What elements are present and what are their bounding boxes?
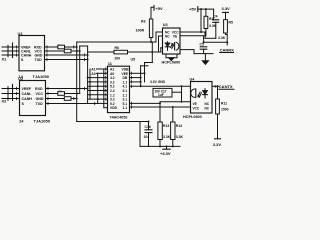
svg-text:VREF: VREF xyxy=(22,87,32,91)
capacitor C5 xyxy=(200,43,207,54)
svg-text:CANL: CANL xyxy=(22,92,33,96)
svg-text:TXD: TXD xyxy=(36,102,44,106)
wire vertical bus B xyxy=(79,46,81,94)
svg-text:+5V: +5V xyxy=(189,7,197,12)
svg-text:NC: NC xyxy=(165,35,170,39)
capacitor C17 xyxy=(153,88,172,97)
wire vertical join to lines xyxy=(151,42,153,63)
svg-text:GND: GND xyxy=(36,97,44,101)
svg-text:CANH: CANH xyxy=(21,54,32,58)
svg-text:TJA1050: TJA1050 xyxy=(34,119,51,124)
wire U5 row8 stub right xyxy=(130,102,161,104)
connector X2 xyxy=(2,85,20,104)
wire vertical riser H xyxy=(144,63,146,82)
node CANTX label xyxy=(212,84,234,89)
power 3.3V bottom right xyxy=(213,139,222,147)
svg-text:A1: A1 xyxy=(91,67,95,71)
svg-text:3.3K: 3.3K xyxy=(163,135,171,139)
svg-text:1: 1 xyxy=(214,84,216,88)
wire U2 right pin stubs xyxy=(46,89,98,104)
capacitor C2 xyxy=(64,49,71,53)
wire rail corner down xyxy=(139,122,141,147)
wire U1 right pin stubs xyxy=(45,47,88,60)
svg-text:CANH: CANH xyxy=(22,97,33,101)
wire vertical bus A xyxy=(76,42,78,122)
svg-text:R14: R14 xyxy=(176,124,182,128)
svg-text:U5: U5 xyxy=(131,57,136,61)
wire U5 left pin stubs xyxy=(88,69,108,108)
svg-text:3.3V: 3.3V xyxy=(213,142,222,147)
svg-text:C5: C5 xyxy=(200,43,204,47)
resistor R3 xyxy=(136,19,153,42)
svg-text:C16: C16 xyxy=(145,125,151,129)
wire U5 to U4 line xyxy=(130,85,191,87)
optocoupler U4 HCPL0600 xyxy=(183,78,212,119)
svg-text:X1: X1 xyxy=(2,57,8,62)
resistor R4 xyxy=(204,9,217,36)
svg-text:NC: NC xyxy=(205,106,210,110)
wire bottom left rail xyxy=(77,121,149,123)
svg-text:R5: R5 xyxy=(229,21,233,25)
resistor R14 xyxy=(171,122,184,146)
wire opto U3 left pin links xyxy=(156,32,164,52)
power +5V top xyxy=(151,6,163,19)
wire R13 top vertical xyxy=(159,102,161,122)
svg-text:100R: 100R xyxy=(136,29,145,33)
wire R14 top vertical xyxy=(172,107,174,122)
wire U4 VCC line xyxy=(130,106,191,108)
wire ground rail under C5 xyxy=(194,53,213,55)
power +3.3V bottom xyxy=(160,146,171,155)
svg-text:1500: 1500 xyxy=(221,107,229,111)
svg-text:GND: GND xyxy=(35,54,43,58)
svg-text:CANTX: CANTX xyxy=(219,84,233,89)
svg-text:R3: R3 xyxy=(141,20,146,24)
multiplexer U5 74HC4052 xyxy=(108,57,136,119)
svg-text:14: 14 xyxy=(19,119,24,124)
svg-text:HCPL0600: HCPL0600 xyxy=(183,115,202,119)
transceiver U1 TJA1050 xyxy=(18,31,50,79)
power 3.3V top right xyxy=(222,6,231,19)
svg-text:HCPL0600: HCPL0600 xyxy=(162,61,181,65)
wire line1 to opto xyxy=(77,41,156,43)
svg-text:A0: A0 xyxy=(91,72,95,76)
capacitor C16 xyxy=(144,122,153,147)
svg-text:+3.3V: +3.3V xyxy=(160,151,171,156)
svg-text:+5V: +5V xyxy=(156,6,164,11)
wire vertical riser G xyxy=(140,66,142,87)
capacitor C4b xyxy=(64,97,71,101)
capacitor C4 xyxy=(213,9,219,38)
wire line2 to opto xyxy=(88,51,161,53)
svg-text:U1: U1 xyxy=(18,31,24,36)
wire riser top step xyxy=(145,62,153,64)
node CANRX label xyxy=(220,47,235,52)
resistor R5 xyxy=(218,20,233,45)
wire U3 right pins xyxy=(180,9,227,54)
svg-text:C4: C4 xyxy=(213,15,217,19)
svg-text:R13: R13 xyxy=(163,124,169,128)
wire vertical bus F xyxy=(103,69,105,108)
svg-text:TJA1050: TJA1050 xyxy=(33,74,50,79)
wire vertical bus D xyxy=(89,69,91,99)
svg-text:200: 200 xyxy=(115,57,121,61)
capacitor C1 xyxy=(58,44,65,49)
pin ticks U2 xyxy=(17,87,95,104)
svg-text:VE: VE xyxy=(173,35,177,39)
svg-text:3.3K: 3.3K xyxy=(176,135,184,139)
svg-text:1.1: 1.1 xyxy=(123,106,128,110)
svg-text:VDD: VDD xyxy=(110,106,118,110)
svg-text:U3: U3 xyxy=(163,23,168,27)
ground arrow xyxy=(202,54,208,65)
wire step bus B to C xyxy=(80,45,88,47)
transceiver U2 TJA1050 xyxy=(18,76,51,124)
pin ticks U5 xyxy=(106,68,132,108)
wire U4 VE line xyxy=(160,101,191,103)
wire vertical bus C xyxy=(87,46,89,104)
wire C17 to U4 riser xyxy=(181,86,183,102)
wire bottom bus xyxy=(140,145,180,147)
resistor R11 xyxy=(216,86,229,139)
resistor R6 xyxy=(114,46,128,61)
svg-text:3.3V GND: 3.3V GND xyxy=(150,80,166,84)
svg-text:VCC: VCC xyxy=(193,106,200,110)
connector X1 xyxy=(2,43,20,62)
wire U5 right upper stubs xyxy=(130,73,145,82)
wire vertical bus E xyxy=(97,73,99,103)
svg-text:1uF: 1uF xyxy=(158,93,164,97)
svg-text:CANRX: CANRX xyxy=(220,47,235,52)
svg-text:3.3V: 3.3V xyxy=(222,6,231,11)
svg-text:RXD: RXD xyxy=(35,87,43,91)
optocoupler U3 HCPL0600 xyxy=(162,23,181,65)
wire C17 right stub xyxy=(172,91,182,93)
svg-text:74HC4052: 74HC4052 xyxy=(109,115,127,119)
resistor R13 xyxy=(158,122,171,146)
pin ticks U1 xyxy=(17,46,85,61)
svg-text:U2: U2 xyxy=(18,76,24,81)
svg-text:R6: R6 xyxy=(115,46,119,50)
wire riser join xyxy=(141,65,148,67)
capacitor C3 xyxy=(58,89,65,95)
svg-text:3.3K: 3.3K xyxy=(218,36,226,40)
svg-text:X2: X2 xyxy=(2,99,8,104)
power +5V rail right xyxy=(189,7,214,12)
svg-text:TXD: TXD xyxy=(35,58,43,62)
ground under U3 xyxy=(166,54,177,61)
svg-text:VCC: VCC xyxy=(36,92,44,96)
svg-text:R11: R11 xyxy=(221,102,227,106)
